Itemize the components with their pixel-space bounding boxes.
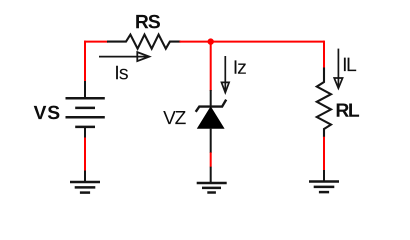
current arrow Iz [222, 56, 230, 93]
wire left vertical from top rail to battery [84, 41, 86, 82]
label RS [136, 15, 160, 29]
wire zener to middle ground [210, 152, 212, 167]
wire top rail right segment [180, 41, 325, 43]
wire right vertical from top rail [323, 41, 325, 68]
label Is [116, 66, 128, 80]
label Iz [235, 60, 246, 73]
ground right [309, 170, 339, 192]
label VS [34, 106, 60, 120]
wire middle vertical from junction to zener [210, 42, 212, 91]
wire top rail left segment [84, 41, 108, 43]
ground middle [197, 167, 227, 193]
resistor RL [317, 68, 331, 138]
battery VS [66, 81, 105, 138]
label IL [344, 58, 356, 71]
node output junction [208, 38, 214, 44]
ground left [70, 171, 100, 193]
wire battery to left ground [84, 138, 86, 172]
wire RL to right ground [323, 137, 325, 171]
current arrow Is [99, 52, 149, 61]
label RL [337, 104, 359, 117]
label VZ [163, 111, 186, 124]
zener diode VZ [196, 90, 227, 153]
current arrow IL [334, 49, 342, 89]
resistor RS [107, 35, 181, 49]
